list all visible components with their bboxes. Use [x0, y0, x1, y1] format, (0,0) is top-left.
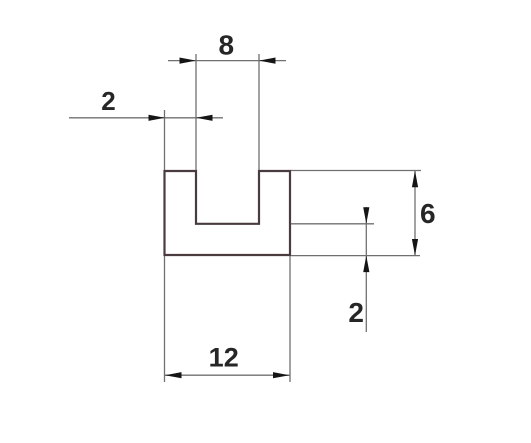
arrowhead dim 12 left: [165, 372, 182, 378]
svg-text:8: 8: [219, 30, 235, 61]
dimension line 2 (bottom thickness, right): [365, 207, 367, 332]
arrowhead dim 2 right: [196, 115, 213, 121]
U-channel profile outline: [165, 171, 291, 255]
svg-text:2: 2: [348, 297, 364, 328]
arrowhead dim 8 right: [259, 58, 276, 64]
dimension line 8 (slot width): [168, 60, 286, 62]
extension line left edge (top, for dim 2): [164, 110, 166, 170]
arrowhead dim 8 left: [180, 58, 197, 64]
svg-text:6: 6: [420, 198, 436, 229]
arrowhead dim 2 right top (down): [363, 207, 369, 224]
svg-text:2: 2: [101, 86, 115, 116]
dimension line 2 (slot offset, top left): [69, 117, 223, 119]
extension line slot bottom (for dim 2 right): [291, 223, 374, 225]
extension line slot left edge: [195, 54, 197, 170]
arrowhead dim 6 bottom: [412, 239, 418, 256]
extension line profile top (for dim 6): [291, 170, 421, 172]
dimension line 6 (height, right): [414, 171, 416, 256]
dimension line 12 (overall width, bottom): [165, 374, 291, 376]
extension line left edge (bottom, for dim 12): [164, 256, 166, 382]
extension line right edge (bottom, for dim 12): [289, 256, 291, 382]
extension line profile bottom (for dim 6): [291, 255, 420, 257]
arrowhead dim 2 right bottom (up): [363, 256, 369, 273]
arrowhead dim 6 top: [412, 171, 418, 188]
arrowhead dim 12 right: [273, 372, 290, 378]
svg-text:12: 12: [209, 343, 239, 373]
extension line slot right edge: [258, 54, 260, 170]
arrowhead dim 2 left: [149, 115, 166, 121]
